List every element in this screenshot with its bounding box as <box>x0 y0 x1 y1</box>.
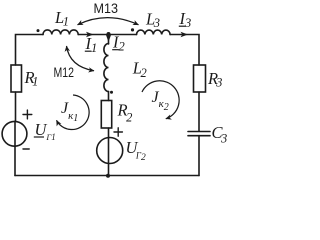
svg-text:Jк1: Jк1 <box>61 100 78 124</box>
arrowhead I3 <box>181 32 189 37</box>
loop arrow JK1 <box>57 95 90 130</box>
wire C3 to bottom <box>198 136 200 176</box>
wire left-top <box>16 35 44 66</box>
loop arrow JK2 <box>142 81 179 119</box>
wire L2 to R2 <box>108 92 110 101</box>
arrowhead I1 <box>86 32 94 37</box>
wire bottom <box>15 175 199 177</box>
resistor R1 <box>11 65 22 92</box>
polarity dot L1 <box>37 29 40 32</box>
svg-text:UГ2: UГ2 <box>126 138 147 163</box>
polarity dot L3 <box>131 28 134 31</box>
mutual arrow M12 <box>67 46 95 71</box>
label I3 <box>179 9 192 30</box>
source UG1 <box>2 121 27 146</box>
resistor R2 <box>101 101 111 129</box>
label I2 <box>112 33 125 54</box>
svg-text:Jк2: Jк2 <box>152 89 169 113</box>
mutual arrow M13 <box>78 18 139 25</box>
junction node top <box>107 32 111 36</box>
plus UG1 <box>23 114 32 116</box>
wire UG1 to R1 <box>15 92 17 121</box>
svg-text:L2: L2 <box>132 59 147 81</box>
polarity dot L2 <box>110 91 113 94</box>
wire top-middle <box>78 34 136 36</box>
wire left-bottom <box>14 146 16 176</box>
svg-text:L3: L3 <box>145 10 160 31</box>
label UG1 <box>34 120 56 142</box>
resistor R3 <box>194 65 206 92</box>
junction node bottom <box>106 174 110 178</box>
wire R2 to UG2 <box>108 128 110 138</box>
svg-text:M12: M12 <box>54 64 75 80</box>
arrowhead I2 <box>106 35 111 43</box>
svg-text:R3: R3 <box>207 69 222 90</box>
capacitor C3 plate top <box>188 131 210 133</box>
wire middle top <box>108 35 110 45</box>
plus UG2 <box>114 131 122 133</box>
source UG2 <box>97 138 123 164</box>
svg-text:M13: M13 <box>94 0 119 16</box>
inductor L1 <box>43 30 78 35</box>
svg-text:R1: R1 <box>24 68 39 89</box>
label I1 <box>85 34 98 55</box>
svg-text:R2: R2 <box>117 101 133 125</box>
svg-text:L1: L1 <box>54 8 69 29</box>
wire through UG1 <box>14 121 16 146</box>
svg-text:I3: I3 <box>179 9 192 30</box>
wire through UG2 <box>108 138 110 176</box>
inductor L2 <box>104 44 109 92</box>
svg-text:I2: I2 <box>112 33 125 54</box>
minus UG1 <box>23 148 29 150</box>
svg-text:I1: I1 <box>85 34 98 55</box>
wire top-right <box>170 35 199 66</box>
svg-text:C3: C3 <box>212 123 228 146</box>
wire R3 to C3 <box>198 92 200 131</box>
inductor L3 <box>137 30 171 34</box>
svg-text:UГ1: UГ1 <box>35 120 56 142</box>
capacitor C3 plate bottom <box>188 135 210 137</box>
